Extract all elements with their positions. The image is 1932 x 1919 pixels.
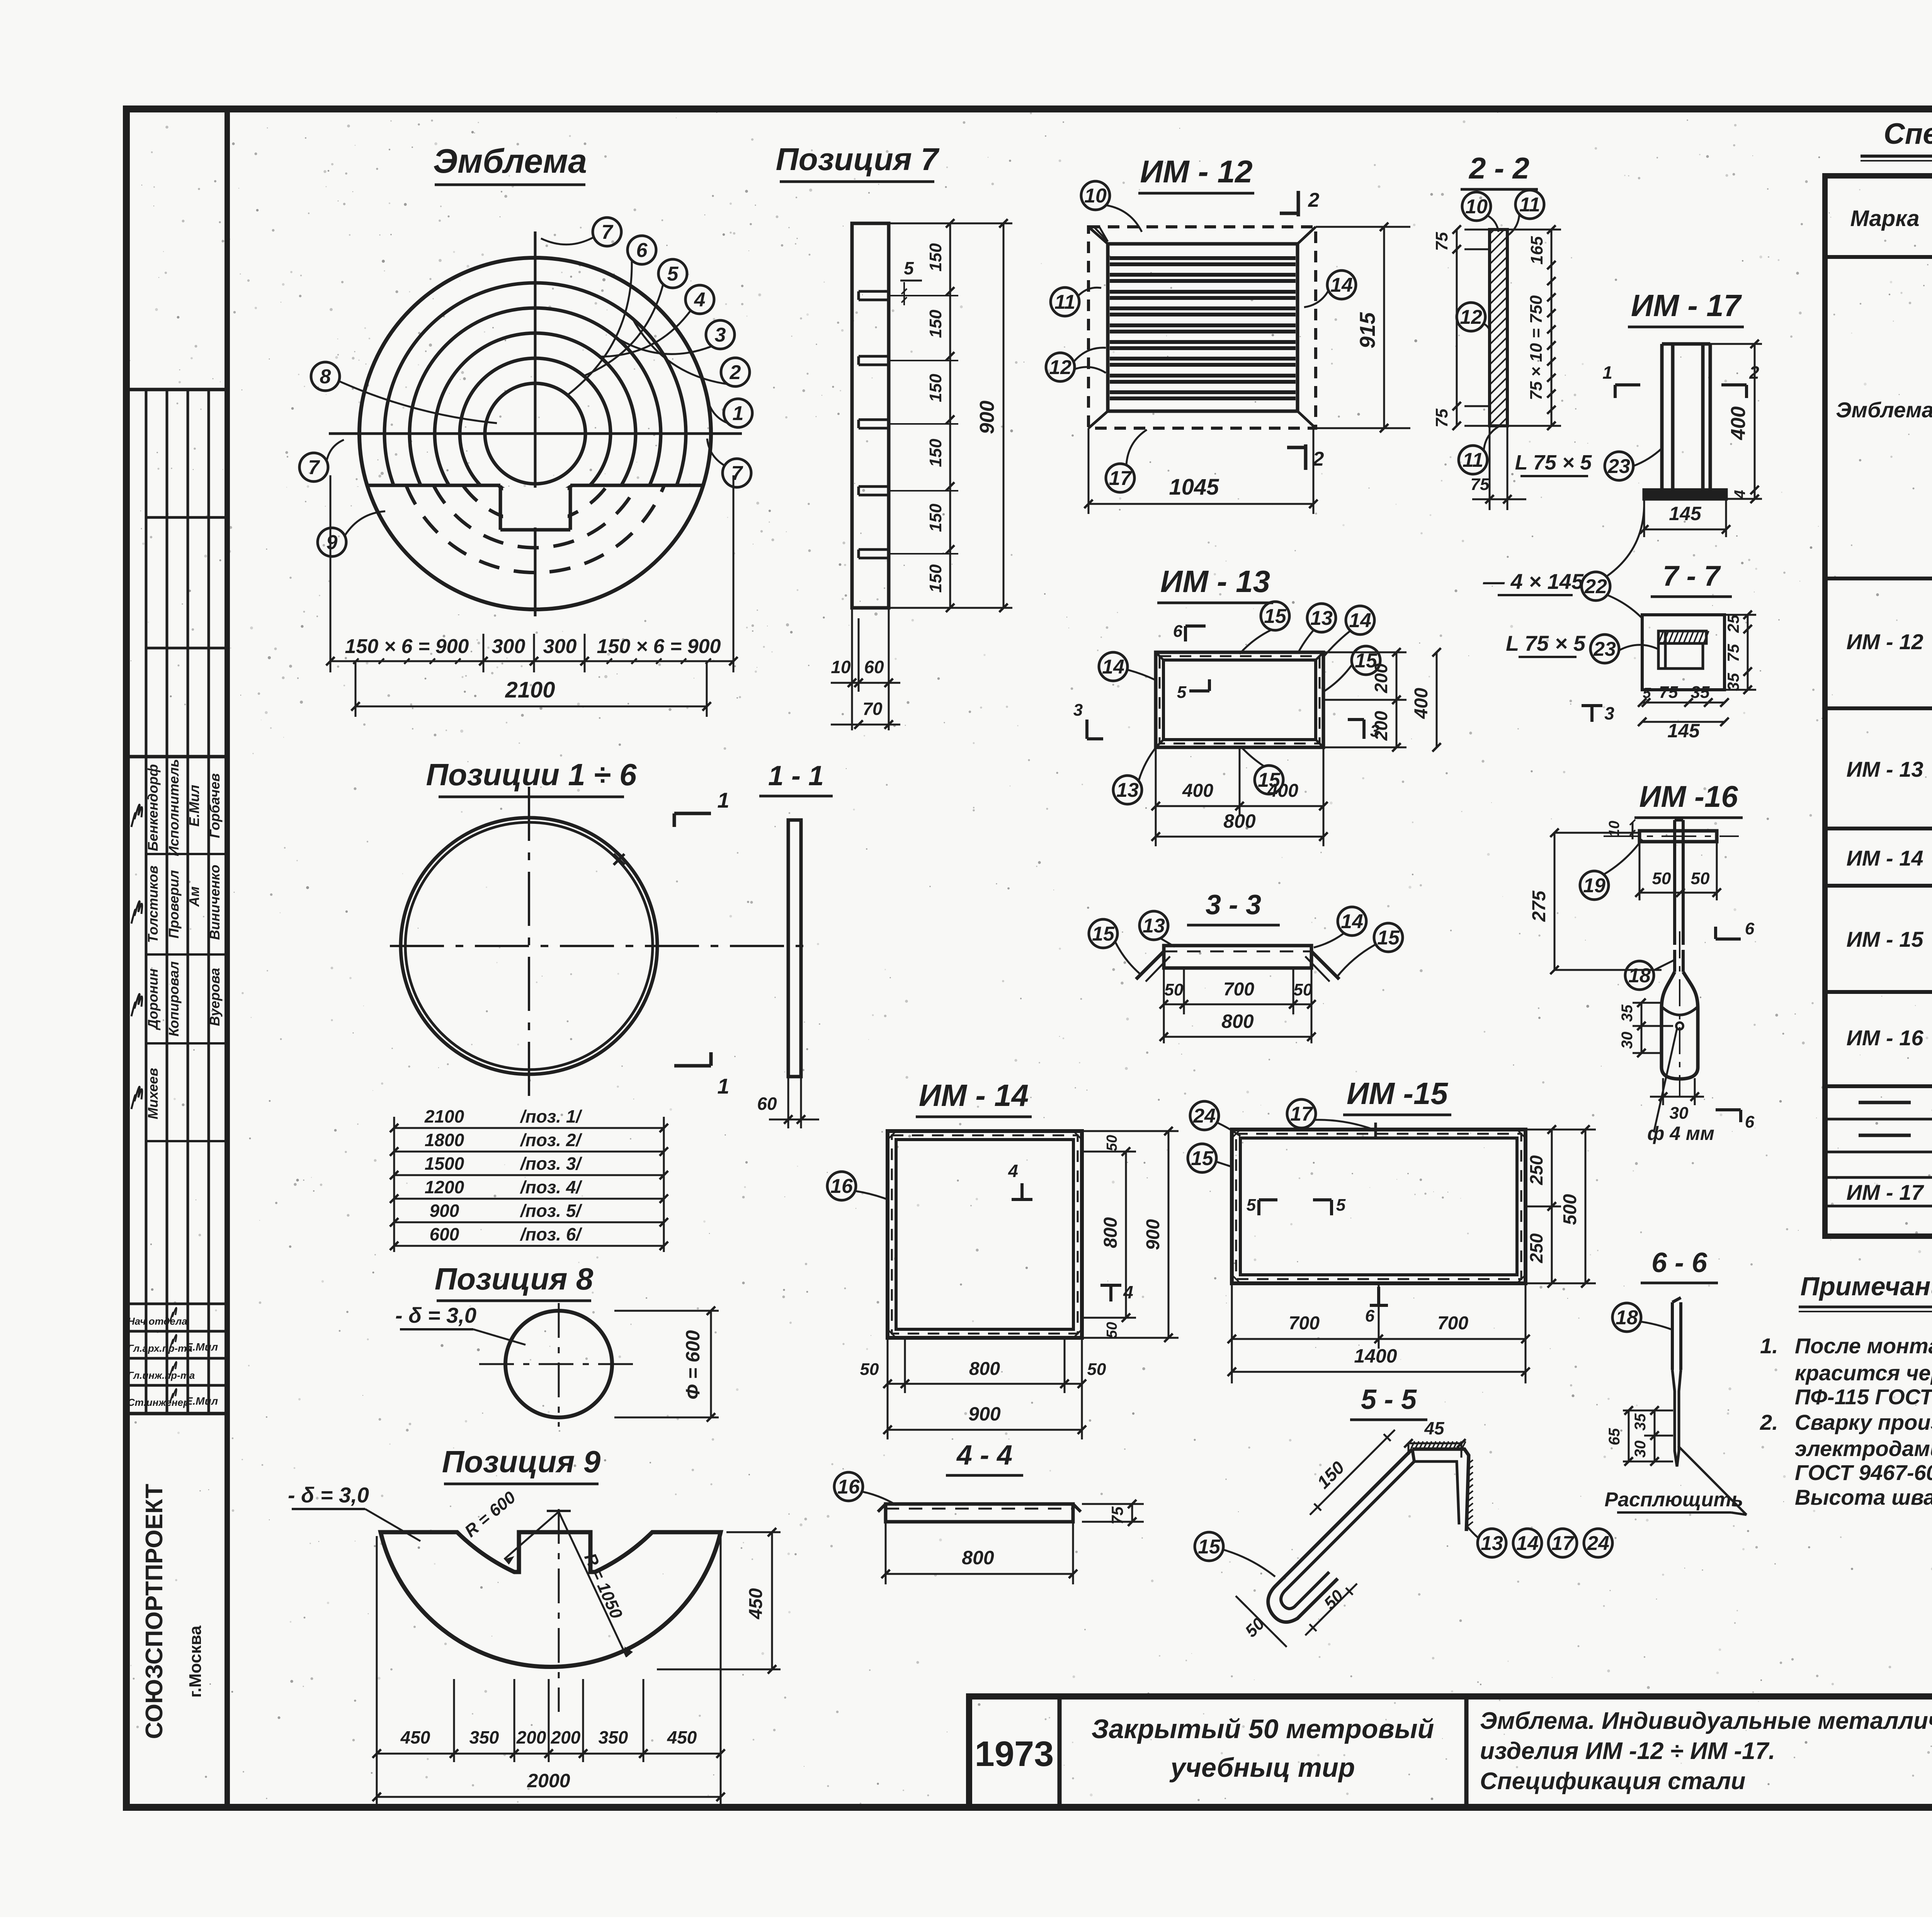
svg-text:150: 150	[926, 243, 945, 272]
svg-text:2: 2	[1313, 448, 1324, 470]
section 2-2 right dims	[1551, 230, 1553, 426]
svg-text:150 × 6 = 900: 150 × 6 = 900	[597, 635, 721, 658]
svg-text:- δ = 3,0: - δ = 3,0	[395, 1303, 476, 1327]
svg-text:2100: 2100	[505, 677, 555, 703]
svg-text:145: 145	[1669, 503, 1702, 524]
left strip signatures column 1 squiggles	[131, 805, 142, 827]
callout 13	[1113, 776, 1142, 804]
section 3-3 end flanges	[1136, 951, 1164, 979]
left strip: top cell divider	[126, 388, 227, 391]
svg-text:60: 60	[757, 1094, 777, 1114]
IM-12 inner frame	[1108, 244, 1298, 411]
svg-text:6: 6	[1173, 622, 1183, 641]
svg-text:14: 14	[1349, 609, 1371, 632]
svg-text:900: 900	[976, 401, 998, 434]
svg-text:Копировал: Копировал	[166, 961, 182, 1037]
position 9 bowl outline	[381, 1532, 721, 1667]
emblem chord line of pos.9 plate	[367, 484, 500, 487]
svg-text:150: 150	[926, 439, 945, 467]
positions 1-6 weld mark	[614, 854, 624, 865]
position 8 circle	[505, 1311, 612, 1417]
svg-text:300: 300	[492, 635, 526, 658]
callout 15	[1352, 646, 1380, 675]
svg-text:1: 1	[717, 1074, 729, 1098]
svg-text:150: 150	[926, 310, 945, 338]
callout 15	[1255, 766, 1283, 794]
emblem dimension extension lines	[330, 475, 332, 672]
callout 15	[1188, 1144, 1216, 1172]
svg-text:350: 350	[599, 1727, 628, 1747]
svg-text:1 - 1: 1 - 1	[768, 760, 824, 791]
svg-text:ПФ-115 ГОСТ 6465-63*: ПФ-115 ГОСТ 6465-63*	[1795, 1385, 1932, 1409]
svg-text:75: 75	[1724, 644, 1742, 662]
callout 7	[593, 218, 621, 246]
IM-16 section 6 marks	[1716, 937, 1741, 941]
callout 16	[834, 1472, 863, 1501]
callout 19	[1580, 871, 1609, 900]
callout 9	[318, 528, 346, 556]
svg-text:15: 15	[1198, 1536, 1221, 1558]
svg-text:450: 450	[400, 1727, 430, 1747]
position 7 bar hooks	[859, 290, 889, 293]
callout 11	[1459, 446, 1487, 474]
svg-text:ИМ - 14: ИМ - 14	[919, 1078, 1029, 1113]
callout 17	[1548, 1529, 1577, 1557]
svg-text:2: 2	[1308, 189, 1320, 211]
svg-text:Эмблема: Эмблема	[1836, 398, 1932, 422]
svg-text:/поз. 3/: /поз. 3/	[520, 1153, 583, 1174]
svg-text:2.: 2.	[1760, 1410, 1778, 1434]
svg-text:75: 75	[1659, 683, 1678, 702]
svg-text:70: 70	[862, 699, 883, 719]
svg-text:/поз. 2/: /поз. 2/	[520, 1130, 583, 1150]
IM-15 right dims	[1526, 1129, 1596, 1131]
svg-text:450: 450	[667, 1727, 697, 1747]
svg-text:г.Москва: г.Москва	[186, 1625, 205, 1698]
svg-text:22: 22	[1584, 575, 1607, 598]
svg-text:14: 14	[1341, 910, 1363, 933]
svg-text:23: 23	[1607, 455, 1630, 478]
svg-text:2000: 2000	[527, 1770, 570, 1791]
emblem rings 2..6 (upper half, erased below chord)	[384, 283, 686, 584]
svg-text:11: 11	[1054, 291, 1075, 313]
svg-text:65: 65	[1606, 1428, 1623, 1445]
svg-text:200: 200	[516, 1727, 546, 1747]
positions 1-6 centre lines	[390, 945, 811, 947]
svg-text:75: 75	[1432, 408, 1451, 427]
svg-text:150: 150	[926, 374, 945, 402]
svg-text:24: 24	[1587, 1532, 1609, 1555]
svg-text:4 - 4: 4 - 4	[956, 1440, 1012, 1471]
svg-text:Михеев: Михеев	[145, 1068, 161, 1119]
section 3-3 bottom dims	[1163, 968, 1165, 1043]
callout 14	[1346, 606, 1374, 635]
emblem centre lines	[329, 432, 742, 435]
svg-text:Нач отдела: Нач отдела	[128, 1315, 187, 1327]
IM-13 right dims	[1323, 652, 1406, 653]
svg-text:СОЮЗСПОРТПРОЕКТ: СОЮЗСПОРТПРОЕКТ	[141, 1484, 168, 1739]
svg-text:Спецификация стали на одно: Спецификация стали на одно изделие	[1884, 117, 1932, 150]
svg-text:800: 800	[969, 1359, 1000, 1379]
IM-17 section marks	[1615, 383, 1640, 386]
svg-text:ИМ - 13: ИМ - 13	[1160, 564, 1270, 599]
svg-text:2100: 2100	[424, 1106, 464, 1126]
svg-text:Бенкендорф: Бенкендорф	[145, 764, 161, 851]
section mark 3 near 7-7	[1590, 704, 1594, 722]
IM-12 louvre slats	[1110, 256, 1296, 260]
svg-text:ИМ - 15: ИМ - 15	[1847, 927, 1924, 951]
svg-text:7: 7	[602, 221, 614, 243]
section 7-7 base square	[1642, 615, 1725, 690]
positions 1-6 ring (double)	[401, 818, 657, 1074]
svg-text:электродами типа Э-42: электродами типа Э-42	[1795, 1436, 1932, 1461]
svg-text:800: 800	[1223, 810, 1256, 832]
svg-text:ИМ - 12: ИМ - 12	[1140, 154, 1252, 189]
svg-text:ИМ - 14: ИМ - 14	[1847, 846, 1923, 870]
svg-text:50: 50	[1104, 1322, 1120, 1338]
callout 18	[1625, 961, 1654, 990]
IM-16 dim 50 50	[1639, 839, 1641, 900]
svg-text:700: 700	[1437, 1313, 1468, 1334]
svg-text:17: 17	[1109, 467, 1132, 490]
emblem dimension row 1	[330, 660, 733, 662]
svg-text:Эмблема: Эмблема	[433, 142, 587, 180]
IM-15 frame rects	[1232, 1130, 1526, 1283]
svg-text:10: 10	[1084, 185, 1107, 207]
section 5-5 comb hatch	[1411, 1441, 1415, 1448]
svg-text:700: 700	[1223, 979, 1254, 1000]
callout 7	[723, 459, 751, 487]
section 7-7 angle section hatched	[1658, 631, 1706, 643]
callout 11	[1051, 288, 1079, 316]
IM-17 bottom dim 145	[1643, 499, 1645, 537]
svg-text:10: 10	[831, 657, 851, 677]
svg-text:16: 16	[830, 1175, 853, 1198]
svg-text:6: 6	[636, 239, 648, 262]
IM-12 bottom dim 1045	[1088, 428, 1090, 514]
callout 7	[299, 453, 328, 481]
svg-text:400: 400	[1411, 688, 1432, 719]
svg-text:13: 13	[1310, 607, 1333, 629]
callout 10	[1462, 192, 1491, 221]
svg-text:Эмблема. Индивидуальные мета: Эмблема. Индивидуальные металлические	[1480, 1708, 1932, 1734]
svg-text:25: 25	[1724, 614, 1742, 633]
callout 24	[1584, 1529, 1612, 1557]
IM-13 bottom dims	[1155, 747, 1157, 846]
svg-text:75 × 10 = 750: 75 × 10 = 750	[1527, 295, 1546, 400]
positions 1-6 diameter rows	[394, 1127, 664, 1129]
svg-text:14: 14	[1516, 1532, 1539, 1555]
callout 18	[1612, 1303, 1641, 1332]
IM-14 corner ticks	[888, 1131, 896, 1140]
callout 17	[1106, 464, 1134, 492]
section 1-1 marks	[674, 812, 711, 815]
svg-text:Е.Мил: Е.Мил	[186, 785, 202, 827]
callout 12	[1046, 353, 1075, 381]
svg-text:Толстиков: Толстиков	[145, 866, 161, 943]
svg-text:60: 60	[864, 657, 884, 677]
section 1-1 bottom dim 60	[787, 1077, 789, 1128]
svg-text:ИМ - 16: ИМ - 16	[1847, 1026, 1924, 1050]
callout 14	[1338, 907, 1366, 936]
svg-text:45: 45	[1424, 1418, 1445, 1438]
IM-13 section marks	[1184, 626, 1187, 641]
svg-text:30: 30	[1670, 1104, 1689, 1123]
svg-text:5: 5	[667, 263, 679, 285]
IM-16 hole	[1676, 1022, 1683, 1029]
svg-text:30: 30	[1619, 1032, 1636, 1049]
IM-16 rod lower & paddle	[1673, 950, 1676, 972]
svg-text:50: 50	[1087, 1360, 1106, 1379]
svg-text:4: 4	[694, 289, 706, 311]
IM-16 top bar	[1639, 831, 1717, 842]
spec table grid verticals	[1823, 176, 1827, 1236]
IM-14 right dims	[1082, 1151, 1136, 1153]
svg-text:Позиция 7: Позиция 7	[776, 142, 940, 177]
svg-text:24: 24	[1193, 1105, 1216, 1127]
svg-text:Ф = 600: Ф = 600	[682, 1330, 704, 1400]
svg-text:Гл.инж.пр-та: Гл.инж.пр-та	[128, 1369, 195, 1381]
svg-text:16: 16	[837, 1476, 860, 1498]
svg-text:ИМ -15: ИМ -15	[1347, 1076, 1449, 1111]
svg-text:23: 23	[1593, 638, 1616, 660]
svg-text:2 - 2: 2 - 2	[1468, 151, 1529, 185]
svg-text:13: 13	[1143, 915, 1165, 937]
svg-text:15: 15	[1092, 923, 1115, 945]
callout 16	[827, 1172, 856, 1200]
svg-text:ИМ - 13: ИМ - 13	[1847, 757, 1923, 781]
svg-text:35: 35	[1632, 1413, 1649, 1431]
svg-text:ф 4 мм: ф 4 мм	[1647, 1123, 1714, 1144]
svg-text:6 - 6: 6 - 6	[1651, 1247, 1708, 1278]
IM-15 section 6 mark bottom	[1377, 1287, 1380, 1305]
svg-text:4: 4	[1731, 490, 1748, 499]
svg-text:5: 5	[1643, 685, 1651, 701]
callout 15	[1089, 919, 1117, 948]
svg-text:50: 50	[1652, 869, 1671, 888]
svg-text:7 - 7: 7 - 7	[1663, 560, 1721, 592]
position 7 dim 900	[1003, 223, 1005, 608]
svg-text:Проверил: Проверил	[166, 870, 182, 938]
svg-text:изделия ИМ -12 ÷ ИМ -17.: изделия ИМ -12 ÷ ИМ -17.	[1480, 1738, 1775, 1764]
svg-text:ИМ - 12: ИМ - 12	[1847, 629, 1923, 654]
svg-text:50: 50	[860, 1360, 879, 1379]
svg-text:Спецификация стали: Спецификация стали	[1480, 1768, 1745, 1795]
position 7 dim 150 steps	[949, 223, 951, 608]
svg-text:Ст.инженер: Ст.инженер	[128, 1397, 189, 1408]
callout 11	[1515, 190, 1544, 219]
callout 10	[1081, 181, 1110, 210]
svg-text:Позиция 8: Позиция 8	[435, 1262, 594, 1296]
svg-text:8: 8	[320, 366, 331, 388]
svg-text:400: 400	[1727, 407, 1750, 441]
svg-text:Марка: Марка	[1850, 206, 1919, 231]
IM-16 rod upper	[1673, 820, 1676, 945]
svg-text:ИМ -16: ИМ -16	[1639, 779, 1738, 813]
position 9 height dim 450	[726, 1531, 781, 1533]
svg-text:3: 3	[715, 324, 726, 346]
IM-16 dim 275 left	[1554, 832, 1639, 834]
svg-text:Виниченко: Виниченко	[207, 865, 223, 940]
svg-text:- δ = 3,0: - δ = 3,0	[288, 1483, 369, 1507]
callout 14	[1513, 1529, 1542, 1557]
svg-text:275: 275	[1529, 890, 1549, 922]
svg-text:14: 14	[1102, 656, 1124, 678]
IM-17 base plate	[1644, 490, 1726, 499]
svg-text:12: 12	[1460, 306, 1482, 328]
svg-text:50: 50	[1294, 980, 1313, 999]
svg-text:150 × 6 = 900: 150 × 6 = 900	[345, 635, 469, 658]
svg-text:35: 35	[1691, 683, 1710, 702]
svg-text:Гл.арх.пр-та: Гл.арх.пр-та	[128, 1342, 192, 1354]
section 1-1 bar	[788, 820, 801, 1077]
IM-12 section marks 2-2	[1297, 191, 1300, 216]
svg-text:200: 200	[1371, 663, 1391, 693]
svg-text:1973: 1973	[975, 1734, 1054, 1774]
svg-text:Позиция 9: Позиция 9	[442, 1444, 601, 1479]
callout 24	[1190, 1101, 1219, 1130]
svg-text:400: 400	[1267, 781, 1298, 801]
callout 23	[1605, 452, 1633, 480]
section 7-7 right dims	[1747, 615, 1749, 690]
svg-text:Сварку производить: Сварку производить	[1795, 1410, 1932, 1434]
svg-text:800: 800	[1221, 1011, 1254, 1032]
svg-text:18: 18	[1616, 1307, 1638, 1329]
svg-text:300: 300	[543, 635, 577, 658]
callout 17	[1287, 1099, 1316, 1128]
svg-text:250: 250	[1526, 1233, 1546, 1263]
svg-text:5: 5	[1177, 683, 1187, 702]
section 7-7 inner square	[1665, 643, 1703, 669]
svg-text:150: 150	[926, 504, 945, 532]
svg-text:13: 13	[1116, 779, 1139, 801]
position 9 centre line	[558, 1509, 560, 1712]
svg-text:/поз. 1/: /поз. 1/	[520, 1106, 583, 1126]
IM-14 bottom dims	[887, 1338, 889, 1439]
svg-text:75: 75	[1432, 232, 1451, 251]
IM-13 corner bevels	[1156, 652, 1163, 660]
position 7 bar plate	[852, 223, 889, 608]
svg-text:1045: 1045	[1169, 475, 1219, 500]
svg-text:Вуерова: Вуерова	[207, 968, 223, 1026]
svg-text:200: 200	[1371, 711, 1391, 741]
IM-12 outer frame (dashed)	[1088, 227, 1316, 428]
section 5-5 hook profile (double line)	[1268, 1449, 1412, 1622]
section 5-5 dim 45	[1408, 1443, 1461, 1444]
emblem centre notch	[499, 485, 502, 530]
svg-text:915: 915	[1355, 312, 1379, 348]
svg-text:4: 4	[1008, 1161, 1018, 1181]
IM-15 section 5 marks	[1257, 1200, 1260, 1215]
svg-text:800: 800	[1100, 1217, 1121, 1248]
svg-text:150: 150	[926, 564, 945, 593]
IM-14 section mark 4	[1109, 1284, 1112, 1301]
svg-text:3: 3	[1073, 701, 1083, 720]
svg-text:900: 900	[1143, 1219, 1163, 1250]
callout 8	[311, 362, 340, 391]
svg-text:50: 50	[1691, 869, 1710, 888]
svg-text:900: 900	[430, 1201, 459, 1221]
svg-text:Исполнитель: Исполнитель	[166, 759, 182, 856]
title block frame	[969, 1696, 1932, 1807]
emblem vertical centre line lower part	[534, 487, 537, 616]
callout 2	[721, 358, 750, 386]
svg-text:Позиции 1 ÷ 6: Позиции 1 ÷ 6	[426, 757, 637, 792]
section 4-4 dims	[885, 1522, 887, 1584]
IM-12 corner diagonals	[1088, 227, 1108, 244]
svg-text:400: 400	[1182, 781, 1213, 801]
svg-text:19: 19	[1583, 874, 1605, 897]
svg-text:11: 11	[1463, 449, 1483, 471]
callout 23	[1590, 635, 1619, 663]
svg-text:2: 2	[730, 361, 741, 384]
IM-12 right dim 915	[1316, 226, 1410, 228]
svg-text:Доронин: Доронин	[145, 968, 161, 1031]
svg-text:30: 30	[1632, 1441, 1649, 1458]
scan speckle noise	[1699, 154, 1701, 155]
section 6-6 dims	[1623, 1410, 1673, 1412]
svg-text:35: 35	[1619, 1004, 1636, 1022]
left title strip divider	[224, 109, 230, 1807]
svg-text:1500: 1500	[425, 1153, 464, 1174]
svg-text:50: 50	[1104, 1135, 1120, 1151]
section 2-2 bottom dim 75	[1489, 426, 1491, 510]
svg-text:5: 5	[1336, 1196, 1346, 1215]
callout 13	[1307, 604, 1336, 632]
callout 13	[1478, 1529, 1506, 1557]
svg-text:6: 6	[1745, 919, 1755, 938]
svg-text:13: 13	[1481, 1532, 1503, 1555]
svg-text:500: 500	[1560, 1194, 1580, 1225]
svg-text:200: 200	[551, 1727, 581, 1747]
svg-text:15: 15	[1191, 1147, 1214, 1170]
spec table horizontals	[1825, 174, 1932, 178]
svg-text:35: 35	[1724, 673, 1742, 691]
svg-text:Горбачев: Горбачев	[207, 773, 223, 838]
svg-text:После монтажа эмблема: После монтажа эмблема	[1795, 1334, 1932, 1358]
svg-text:75: 75	[1471, 475, 1490, 494]
svg-text:350: 350	[469, 1727, 499, 1747]
svg-text:3 - 3: 3 - 3	[1206, 890, 1261, 920]
callout 15	[1261, 602, 1289, 630]
svg-text:1.: 1.	[1760, 1334, 1778, 1358]
callout 5	[658, 259, 687, 288]
callout 4	[685, 285, 714, 314]
svg-text:/поз. 6/: /поз. 6/	[520, 1224, 583, 1244]
position 9 bottom dims	[376, 1679, 378, 1762]
svg-text:3: 3	[1604, 703, 1614, 723]
callout 22	[1582, 572, 1610, 601]
svg-text:50: 50	[1165, 980, 1184, 999]
section 6-6 rod	[1671, 1302, 1674, 1370]
svg-text:17: 17	[1290, 1103, 1313, 1125]
emblem dashed arcs (hidden plate edges)	[498, 485, 572, 497]
svg-text:900: 900	[968, 1403, 1001, 1425]
svg-text:L 75 × 5: L 75 × 5	[1515, 451, 1592, 474]
IM-16 dim 30 below	[1662, 1078, 1664, 1105]
svg-text:ИМ - 17: ИМ - 17	[1631, 288, 1742, 323]
svg-text:Ам: Ам	[186, 886, 202, 907]
section 2-2 left dims	[1456, 230, 1458, 426]
IM-13 frame rects	[1156, 652, 1323, 747]
svg-text:800: 800	[962, 1547, 994, 1569]
section 3-3 bar	[1164, 946, 1311, 968]
svg-text:4: 4	[1123, 1282, 1133, 1302]
svg-text:14: 14	[1330, 274, 1353, 296]
svg-text:1200: 1200	[425, 1177, 464, 1197]
IM-15 bottom dims	[1231, 1283, 1233, 1383]
IM-17 right dim 400	[1710, 343, 1762, 345]
